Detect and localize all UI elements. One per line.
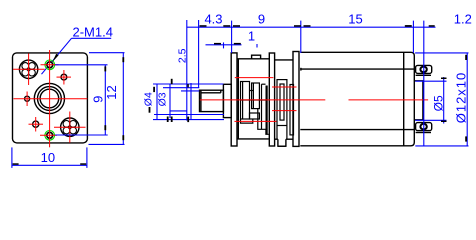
svg-text:Ø5: Ø5 — [432, 95, 446, 111]
svg-text:9: 9 — [258, 12, 265, 27]
svg-text:1.2: 1.2 — [454, 12, 472, 27]
svg-text:15: 15 — [348, 12, 362, 27]
svg-text:12: 12 — [104, 85, 119, 99]
svg-text:2-M1.4: 2-M1.4 — [73, 25, 113, 40]
svg-text:1: 1 — [248, 28, 255, 43]
svg-text:Ø12x10: Ø12x10 — [454, 72, 469, 124]
svg-text:4.3: 4.3 — [204, 12, 222, 27]
svg-text:Ø3: Ø3 — [157, 92, 169, 106]
svg-text:Ø4: Ø4 — [142, 92, 154, 106]
svg-text:2.5: 2.5 — [176, 48, 188, 63]
svg-text:10: 10 — [41, 150, 55, 165]
